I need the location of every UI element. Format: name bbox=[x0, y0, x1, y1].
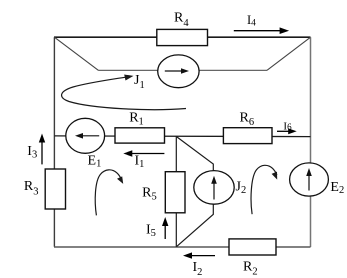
wire J2 upper diagonal and stub bbox=[177, 137, 214, 171]
wire left border bbox=[53, 37, 55, 247]
loop arrow near J1 (swirl) bbox=[62, 75, 186, 110]
wire J1 branch right horizontal bbox=[199, 69, 267, 71]
current source J2 bbox=[194, 171, 234, 205]
resistor R5 bbox=[165, 172, 185, 213]
current arrow I5 bbox=[162, 217, 168, 239]
resistor R2 bbox=[229, 239, 276, 255]
current arrow I6 bbox=[277, 128, 297, 134]
voltage source E1 bbox=[66, 118, 105, 153]
loop arrow middle-right bbox=[251, 165, 277, 214]
wire top border bbox=[54, 36, 311, 38]
wire right border bbox=[310, 37, 312, 247]
wire bottom border bbox=[54, 246, 311, 248]
wire J1 branch left horizontal bbox=[99, 69, 159, 71]
resistor R6 bbox=[223, 128, 272, 144]
resistor R4 bbox=[157, 29, 208, 45]
wire J1 branch right diagonal bbox=[267, 37, 310, 70]
resistor R1 bbox=[115, 128, 165, 143]
current arrow I2 bbox=[183, 252, 215, 258]
wire R5 vertical branch bbox=[175, 136, 177, 246]
voltage source E2 bbox=[290, 163, 329, 196]
current source J1 bbox=[158, 55, 199, 88]
wire J2 lower stub and diagonal bbox=[177, 204, 214, 247]
svg-text:I6: I6 bbox=[283, 121, 292, 133]
current arrow I4 bbox=[234, 27, 289, 34]
wire middle row (E1 R1 R6) bbox=[54, 135, 310, 138]
current arrow I3 bbox=[39, 134, 45, 165]
current arrow I1 bbox=[123, 150, 164, 156]
wire J1 branch left diagonal bbox=[55, 37, 99, 70]
loop arrow middle-left bbox=[95, 170, 123, 216]
resistor R3 bbox=[45, 169, 65, 209]
